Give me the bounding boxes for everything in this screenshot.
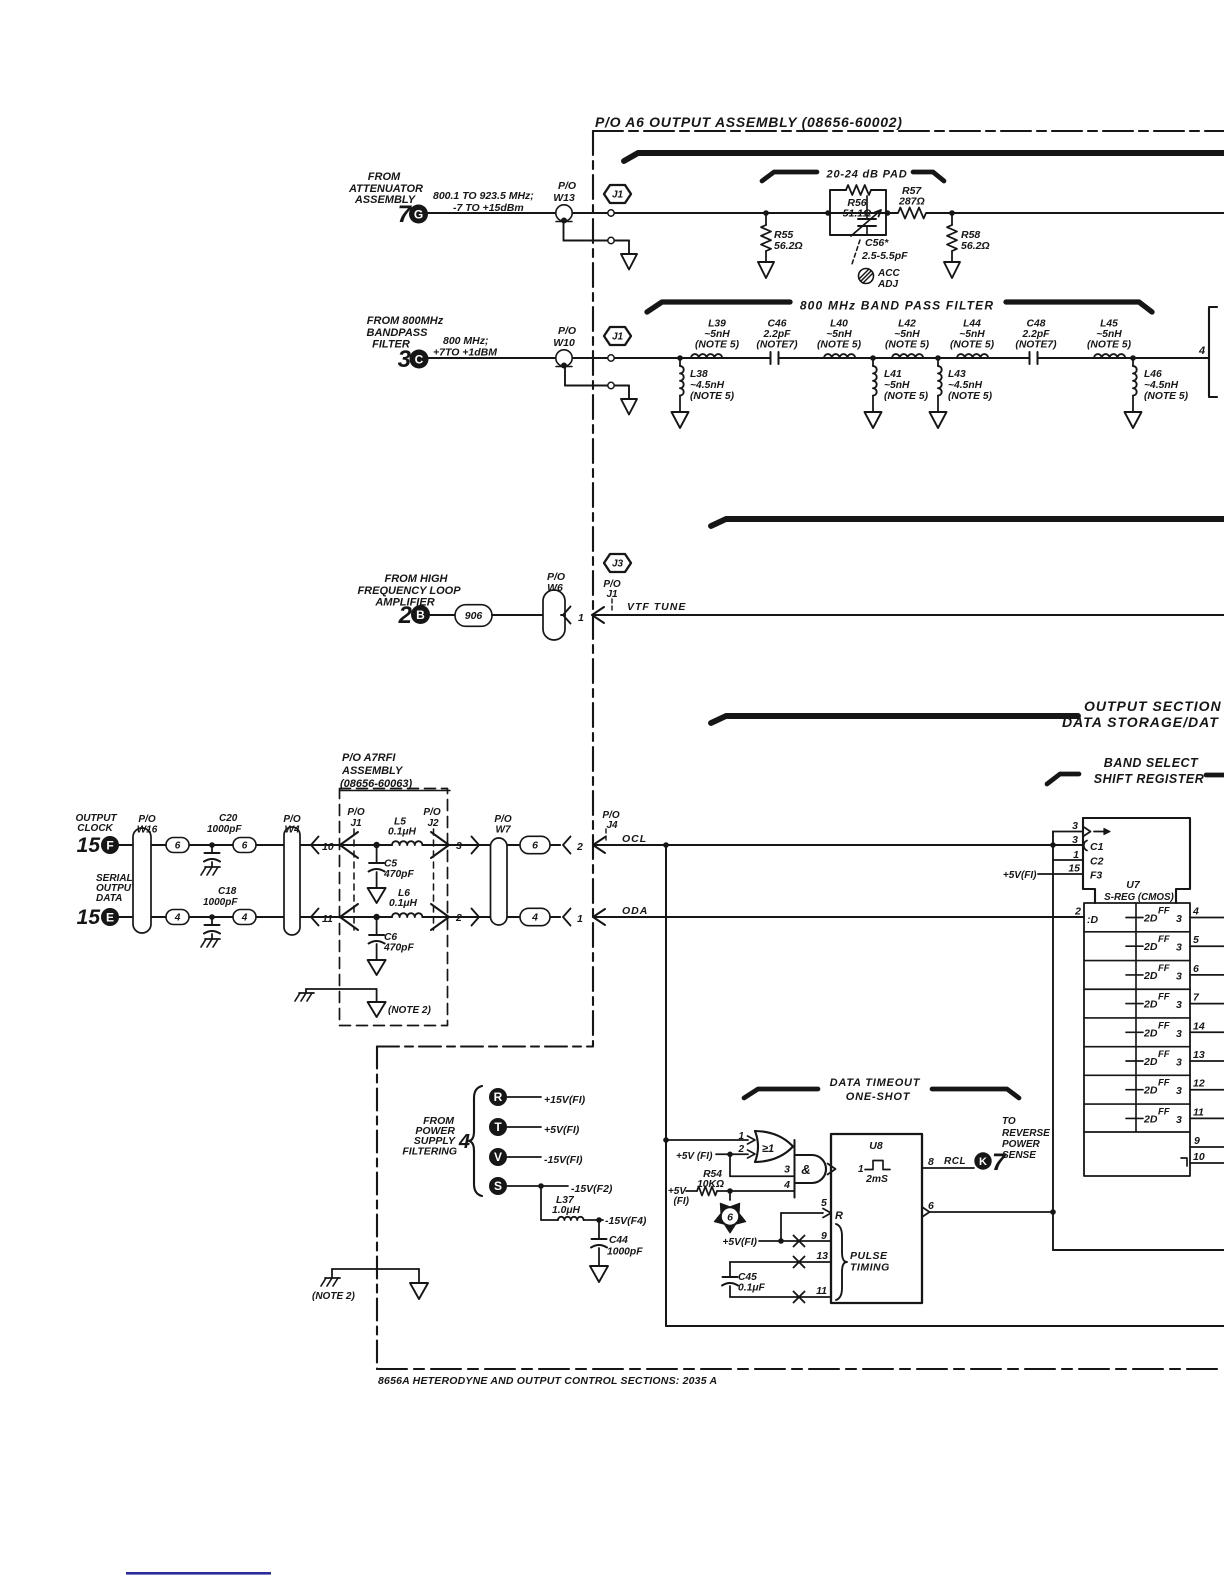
svg-text:C56*: C56* — [865, 237, 889, 249]
svg-text:0.1μH: 0.1μH — [389, 898, 418, 909]
svg-text:3: 3 — [1176, 1028, 1182, 1040]
svg-text:2D: 2D — [1143, 1027, 1158, 1039]
svg-text:J4: J4 — [606, 820, 618, 831]
svg-text:FF: FF — [1158, 1049, 1170, 1060]
svg-text:2D: 2D — [1143, 999, 1158, 1011]
svg-text:(NOTE 5): (NOTE 5) — [950, 340, 995, 351]
svg-text:RCL: RCL — [944, 1156, 966, 1167]
svg-text:C: C — [415, 352, 424, 366]
svg-text:ONE-SHOT: ONE-SHOT — [846, 1091, 911, 1103]
svg-text:1: 1 — [1073, 849, 1079, 861]
svg-text:15: 15 — [77, 906, 101, 929]
svg-text:4: 4 — [1198, 345, 1205, 357]
svg-text:(NOTE 5): (NOTE 5) — [817, 340, 862, 351]
svg-text:U7: U7 — [1126, 879, 1141, 891]
svg-text:F: F — [106, 838, 113, 852]
svg-text:1000pF: 1000pF — [207, 824, 242, 835]
svg-text:(NOTE 2): (NOTE 2) — [388, 1005, 431, 1016]
svg-text:2.2pF: 2.2pF — [1022, 329, 1051, 340]
svg-text:2: 2 — [1074, 906, 1081, 918]
svg-text:W4: W4 — [285, 825, 300, 836]
svg-text:2mS: 2mS — [865, 1174, 888, 1185]
svg-text:4: 4 — [1192, 906, 1199, 918]
svg-text:~5nH: ~5nH — [1096, 329, 1122, 340]
svg-text:SENSE: SENSE — [1002, 1150, 1036, 1161]
svg-text:PULSE: PULSE — [850, 1250, 888, 1262]
svg-text:2D: 2D — [1143, 970, 1158, 982]
svg-text:3: 3 — [784, 1164, 790, 1176]
svg-text:J2: J2 — [427, 818, 439, 829]
svg-text:W7: W7 — [496, 825, 511, 836]
svg-text:DATA STORAGE/DAT: DATA STORAGE/DAT — [1062, 714, 1219, 730]
svg-text:BAND SELECT: BAND SELECT — [1104, 756, 1199, 770]
svg-text:9: 9 — [821, 1230, 827, 1242]
svg-text:OUTPUT SECTION: OUTPUT SECTION — [1084, 698, 1222, 714]
svg-text:W6: W6 — [547, 582, 563, 594]
svg-text:~5nH: ~5nH — [826, 329, 852, 340]
svg-text:J1: J1 — [350, 818, 362, 829]
svg-text:2: 2 — [737, 1144, 744, 1155]
svg-text:3: 3 — [1176, 1114, 1182, 1126]
svg-text:4: 4 — [531, 912, 538, 924]
svg-text:+5V(FI): +5V(FI) — [1003, 870, 1037, 881]
svg-text:DATA TIMEOUT: DATA TIMEOUT — [830, 1077, 921, 1089]
svg-text:C5: C5 — [384, 859, 397, 870]
svg-text:FREQUENCY LOOP: FREQUENCY LOOP — [357, 585, 461, 597]
svg-text:(NOTE7): (NOTE7) — [1015, 340, 1057, 351]
svg-text:P/O: P/O — [347, 807, 364, 818]
svg-text:1: 1 — [738, 1131, 744, 1142]
svg-text:470pF: 470pF — [383, 869, 414, 880]
svg-text:3: 3 — [1072, 820, 1078, 832]
svg-text:3: 3 — [456, 840, 462, 852]
svg-text:REVERSE: REVERSE — [1002, 1128, 1050, 1139]
svg-text:2D: 2D — [1143, 941, 1158, 953]
svg-text:(08656-60063): (08656-60063) — [340, 778, 413, 790]
svg-text:3: 3 — [1176, 913, 1182, 925]
svg-text:C20: C20 — [219, 813, 238, 824]
svg-text:P/O A7RFI: P/O A7RFI — [342, 752, 396, 764]
svg-text:FF: FF — [1158, 1106, 1170, 1117]
svg-text:U8: U8 — [869, 1140, 883, 1152]
svg-text:(NOTE 5): (NOTE 5) — [885, 340, 930, 351]
svg-text:+5V(FI): +5V(FI) — [544, 1124, 580, 1136]
svg-text:CLOCK: CLOCK — [77, 823, 113, 834]
svg-text:B: B — [416, 608, 425, 622]
svg-text:~5nH: ~5nH — [704, 329, 730, 340]
svg-text:2D: 2D — [1143, 1113, 1158, 1125]
svg-text:L39: L39 — [708, 319, 726, 330]
svg-text:3: 3 — [1176, 1057, 1182, 1069]
svg-text:ASSEMBLY: ASSEMBLY — [341, 765, 404, 777]
svg-text:1000pF: 1000pF — [607, 1247, 643, 1258]
svg-text:10KΩ: 10KΩ — [697, 1179, 724, 1190]
svg-text:OCL: OCL — [622, 833, 647, 845]
svg-text:14: 14 — [1193, 1020, 1205, 1032]
svg-text:5: 5 — [1193, 934, 1199, 946]
svg-text:+15V(FI): +15V(FI) — [544, 1094, 586, 1106]
svg-text:56.2Ω: 56.2Ω — [774, 240, 803, 252]
svg-text:L42: L42 — [898, 319, 916, 330]
svg-text:+5V(FI): +5V(FI) — [722, 1237, 757, 1248]
svg-text:C45: C45 — [738, 1272, 757, 1283]
svg-text:1: 1 — [858, 1164, 864, 1175]
svg-text:FROM: FROM — [368, 171, 401, 183]
svg-text:FILTERING: FILTERING — [402, 1146, 457, 1158]
svg-text:FROM HIGH: FROM HIGH — [385, 573, 449, 585]
svg-text:3: 3 — [1176, 942, 1182, 954]
svg-text:C6: C6 — [384, 932, 397, 943]
svg-text:L40: L40 — [830, 319, 848, 330]
svg-text:P/O: P/O — [494, 814, 511, 825]
svg-text:&: & — [801, 1162, 810, 1177]
svg-text:5: 5 — [821, 1197, 827, 1209]
svg-text:0.1μF: 0.1μF — [738, 1283, 766, 1294]
svg-text:ODA: ODA — [622, 905, 648, 917]
svg-text:10: 10 — [1193, 1151, 1205, 1163]
svg-text:800.1 TO 923.5 MHz;: 800.1 TO 923.5 MHz; — [433, 190, 534, 202]
svg-text:0.1μH: 0.1μH — [388, 827, 417, 838]
svg-text:10: 10 — [322, 841, 334, 853]
svg-text:FF: FF — [1158, 963, 1170, 974]
svg-text:-15V(F2): -15V(F2) — [571, 1183, 613, 1195]
svg-text:C44: C44 — [609, 1235, 628, 1246]
svg-text:T: T — [494, 1120, 502, 1134]
svg-text:11: 11 — [1193, 1106, 1204, 1118]
svg-text:S: S — [494, 1179, 502, 1193]
svg-text:6: 6 — [727, 1212, 733, 1224]
svg-text:8656A HETERODYNE AND OUTPUT CO: 8656A HETERODYNE AND OUTPUT CONTROL SECT… — [378, 1375, 717, 1387]
svg-text:(NOTE 5): (NOTE 5) — [695, 340, 740, 351]
svg-text:13: 13 — [1193, 1049, 1205, 1061]
svg-text:VTF TUNE: VTF TUNE — [627, 601, 686, 613]
svg-text:F3: F3 — [1090, 870, 1102, 882]
svg-text:C18: C18 — [218, 886, 237, 897]
svg-text:S-REG (CMOS): S-REG (CMOS) — [1104, 892, 1174, 903]
svg-text:J1: J1 — [612, 332, 624, 343]
svg-text:G: G — [414, 207, 423, 221]
svg-text:L43: L43 — [948, 369, 966, 380]
svg-text:W13: W13 — [553, 192, 575, 204]
svg-text:(NOTE 5): (NOTE 5) — [1087, 340, 1132, 351]
svg-text:56.2Ω: 56.2Ω — [961, 240, 990, 252]
svg-text:3: 3 — [1072, 834, 1078, 846]
svg-text:≥1: ≥1 — [762, 1143, 774, 1155]
svg-text:E: E — [106, 910, 114, 924]
svg-text:(NOTE 5): (NOTE 5) — [1144, 391, 1189, 402]
svg-text:C48: C48 — [1027, 319, 1046, 330]
svg-text:~5nH: ~5nH — [884, 380, 910, 391]
svg-text:2: 2 — [398, 602, 413, 629]
svg-text:(NOTE 5): (NOTE 5) — [884, 391, 929, 402]
svg-text:800 MHz;: 800 MHz; — [443, 335, 489, 347]
svg-text:DATA: DATA — [96, 893, 122, 904]
svg-text:K: K — [979, 1156, 987, 1168]
svg-text:4: 4 — [783, 1179, 790, 1191]
svg-text:7: 7 — [1193, 992, 1200, 1004]
svg-text:P/O: P/O — [558, 180, 576, 192]
svg-text:800 MHz BAND PASS FILTER: 800 MHz BAND PASS FILTER — [800, 299, 994, 313]
svg-text:-15V(F4): -15V(F4) — [605, 1215, 647, 1227]
svg-text:~4.5nH: ~4.5nH — [690, 380, 725, 391]
svg-text:-15V(FI): -15V(FI) — [544, 1154, 583, 1166]
svg-text:BANDPASS: BANDPASS — [367, 327, 429, 339]
svg-text:6: 6 — [242, 841, 248, 852]
svg-text:2D: 2D — [1143, 913, 1158, 925]
svg-text:(NOTE 5): (NOTE 5) — [948, 391, 993, 402]
svg-text:W16: W16 — [137, 825, 158, 836]
svg-text:3: 3 — [1176, 970, 1182, 982]
svg-text:2D: 2D — [1143, 1056, 1158, 1068]
svg-text:R: R — [835, 1210, 843, 1222]
svg-text:W10: W10 — [553, 337, 575, 349]
svg-text:J1: J1 — [612, 190, 624, 201]
svg-text:L45: L45 — [1100, 319, 1118, 330]
svg-text:P/O: P/O — [283, 814, 300, 825]
svg-text:4: 4 — [241, 913, 248, 924]
svg-text:1000pF: 1000pF — [203, 897, 238, 908]
svg-text:15: 15 — [77, 834, 101, 857]
svg-text:FF: FF — [1158, 906, 1170, 917]
svg-text:POWER: POWER — [1002, 1139, 1041, 1150]
svg-text:287Ω: 287Ω — [898, 196, 925, 208]
svg-text:(NOTE 5): (NOTE 5) — [690, 391, 735, 402]
svg-text:R: R — [494, 1090, 503, 1104]
svg-text:L44: L44 — [963, 319, 981, 330]
svg-text:FF: FF — [1158, 1078, 1170, 1089]
svg-text:2.5-5.5pF: 2.5-5.5pF — [861, 250, 908, 262]
svg-text:P/O: P/O — [558, 325, 576, 337]
svg-text:~4.5nH: ~4.5nH — [1144, 380, 1179, 391]
svg-text:4: 4 — [174, 913, 181, 924]
svg-text:P/O: P/O — [138, 814, 155, 825]
svg-text:FF: FF — [1158, 992, 1170, 1003]
svg-text:1.0μH: 1.0μH — [552, 1205, 581, 1216]
svg-text:1: 1 — [578, 612, 584, 624]
svg-text:12: 12 — [1193, 1078, 1205, 1090]
svg-text:~4.5nH: ~4.5nH — [948, 380, 983, 391]
svg-text:P/O A6 OUTPUT ASSEMBLY (08656-: P/O A6 OUTPUT ASSEMBLY (08656-60002) — [595, 114, 903, 130]
svg-text:11: 11 — [322, 913, 333, 925]
svg-text:3: 3 — [1176, 1085, 1182, 1097]
svg-text:~5nH: ~5nH — [959, 329, 985, 340]
svg-text:6: 6 — [532, 840, 538, 852]
svg-text:2: 2 — [576, 841, 583, 853]
svg-text:2: 2 — [455, 912, 462, 924]
svg-text:V: V — [494, 1150, 502, 1164]
svg-text:~5nH: ~5nH — [894, 329, 920, 340]
svg-text:906: 906 — [465, 610, 483, 622]
svg-text:P/O: P/O — [423, 807, 440, 818]
svg-text:9: 9 — [1194, 1135, 1200, 1147]
svg-text:1: 1 — [577, 913, 583, 925]
svg-text:11: 11 — [816, 1285, 827, 1297]
svg-text:6: 6 — [175, 841, 181, 852]
svg-text:+7TO +1dBM: +7TO +1dBM — [433, 347, 497, 359]
svg-text:2D: 2D — [1143, 1085, 1158, 1097]
svg-text:15: 15 — [1068, 863, 1080, 875]
svg-text:(NOTE7): (NOTE7) — [756, 340, 798, 351]
svg-text:6: 6 — [928, 1200, 934, 1212]
svg-text:3: 3 — [1176, 999, 1182, 1011]
svg-text:L38: L38 — [690, 369, 708, 380]
svg-text::D: :D — [1087, 914, 1098, 926]
svg-text:C1: C1 — [1090, 841, 1104, 853]
svg-text:L41: L41 — [884, 369, 902, 380]
svg-text:C2: C2 — [1090, 856, 1104, 868]
svg-text:(FI): (FI) — [673, 1196, 689, 1207]
svg-text:C46: C46 — [768, 319, 787, 330]
svg-text:FF: FF — [1158, 934, 1170, 945]
svg-text:FROM 800MHz: FROM 800MHz — [367, 315, 444, 327]
svg-text:FF: FF — [1158, 1020, 1170, 1031]
svg-text:SHIFT REGISTER: SHIFT REGISTER — [1094, 772, 1204, 786]
svg-text:ACC: ACC — [877, 268, 900, 279]
svg-text:ADJ: ADJ — [877, 279, 898, 290]
svg-text:(NOTE 2): (NOTE 2) — [312, 1291, 355, 1302]
svg-text:13: 13 — [816, 1250, 828, 1262]
svg-text:TIMING: TIMING — [850, 1262, 890, 1274]
svg-text:20-24 dB PAD: 20-24 dB PAD — [826, 169, 908, 181]
svg-text:J3: J3 — [612, 559, 624, 570]
svg-text:6: 6 — [1193, 963, 1199, 975]
svg-text:+5V (FI): +5V (FI) — [676, 1151, 713, 1162]
svg-text:L46: L46 — [1144, 369, 1162, 380]
svg-text:8: 8 — [928, 1156, 934, 1168]
svg-text:470pF: 470pF — [383, 943, 414, 954]
svg-text:2.2pF: 2.2pF — [763, 329, 792, 340]
svg-text:TO: TO — [1002, 1116, 1016, 1127]
